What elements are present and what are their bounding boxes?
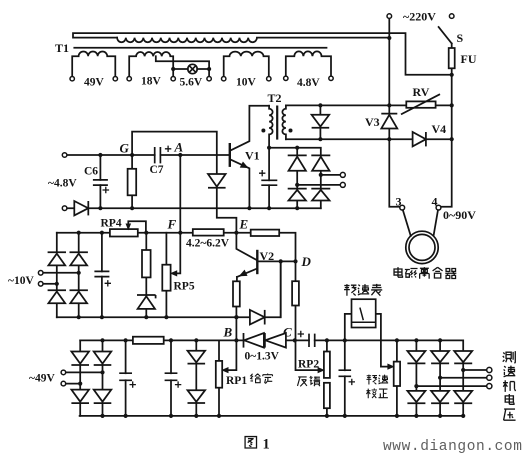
zener diode [137,295,156,309]
junction dot cap2 bottom [169,414,173,418]
wire tach bridge column 1 [415,340,417,416]
svg-text:S: S [457,31,464,45]
terminal tach output 1 [487,367,492,372]
svg-text:49V: 49V [84,77,105,89]
series capacitor after C [309,334,315,347]
svg-text:5.6V: 5.6V [180,77,203,89]
junction dot emitter-res/diode rail [234,315,238,319]
wire 220V left terminal down to primary line [388,18,390,113]
terminal ~49V upper [61,370,66,375]
wire tach bridge column 3 [462,363,464,416]
indicator lamp 5.6V [188,64,197,73]
terminal 49V left [70,77,74,81]
tach diode top col2 [431,351,449,363]
wire V2 base lead [236,233,257,261]
wire 10V input bottom [43,283,57,285]
svg-text:RP2: RP2 [298,359,319,371]
node E dot [234,231,238,235]
junction dot diode col top [194,338,198,342]
feedback diode on 10V bottom rail [250,310,265,325]
svg-text:C7: C7 [150,164,164,176]
junction dot feedback col [279,259,283,263]
label 转速校正 (speed correction) [366,375,377,385]
capacitor C6 [93,180,108,185]
49V bridge diode bottom col1 [71,390,89,404]
junction dot 5.6V right [207,67,211,71]
svg-text:~10V: ~10V [8,275,34,287]
transformer T1 primary bar [73,33,452,75]
svg-text:RV: RV [413,85,430,99]
diode lower on 49V column [188,390,206,403]
resistor 4.2~6.2V [193,229,224,236]
terminal 4.8V left [284,76,288,80]
wire rectifier column 2 [320,171,322,208]
terminal 49V right [113,77,117,81]
potentiometer RP4 [110,229,138,236]
junction dot bridge col2 top [77,231,81,235]
junction dot emitter resistor rail [234,315,238,319]
junction dot bridge col3 bottom [461,414,465,418]
wire 49V bridge column 2 [102,340,104,416]
svg-text:RP1: RP1 [226,375,247,387]
wire feedback diode to collector column [280,261,282,317]
node G dot [130,153,134,157]
wire output line col2 [440,377,487,379]
wire A-line (input to V1 base) [65,154,230,156]
correction wiper arrow [388,364,394,369]
rectifier diode top col2 [311,155,330,170]
wire 18V winding centre tap to 5.6V right terminal [156,56,209,69]
wire rectifier column 1 [296,148,298,209]
svg-text:V1: V1 [245,149,260,163]
tachometer meter body [352,299,376,327]
wire divider chain column [145,233,147,318]
junction dot RV right [450,103,454,107]
rectifier diode bottom col2 [311,189,330,201]
49V bridge diode bottom col2 [94,390,112,404]
svg-text:4: 4 [432,195,438,209]
diode V4 [413,132,426,146]
junction dot bridge col2 bottom [77,315,81,319]
resistor on B rail [133,337,164,344]
terminal 4.8V right [329,76,333,80]
junction dot bridge col2 top [438,338,442,342]
junction dot cap rail [267,206,271,210]
label 测速机电压 (tachogenerator voltage) [503,351,516,363]
terminal tach output 3 [487,384,492,389]
svg-text:T1: T1 [55,41,69,55]
transformer T1 primary winding scallops [117,38,389,43]
wire rectifier tap to terminal lower [297,184,340,186]
svg-text:3: 3 [396,195,402,209]
wire RP2 column [326,340,328,416]
wire RP5 column [165,233,167,318]
junction dot C6 top [98,153,102,157]
emitter arrow V2 [240,270,247,275]
terminal ~4.8V lower [62,206,67,211]
potentiometer RP2 body lower [324,383,330,408]
junction dot tap col2 [319,173,323,177]
junction dot C6 bottom [98,206,102,210]
T1 secondary winding 4.8V [286,51,331,76]
junction dot cap1 bottom [124,414,128,418]
wire RP1 column [218,340,220,416]
T2 primary winding [269,106,273,148]
transistor V1 base bar [229,144,231,166]
fuse FU [449,48,455,68]
wire C6 column [99,155,101,208]
node F dot [178,231,182,235]
wire rectifier tap to terminal upper [321,174,340,176]
junction dot electrolytic top [343,338,347,342]
T2 secondary winding [282,105,286,139]
wire tach bridge column 2 [439,340,441,416]
terminal ~220V left [387,14,392,19]
T1 secondary winding 10V [224,52,269,77]
junction dot G resistor bottom [130,206,134,210]
svg-text:4.2~6.2V: 4.2~6.2V [186,238,230,250]
T2 polarity dot left [261,129,265,133]
diode B-C 1 [244,333,264,348]
tach diode top col1 [407,351,425,363]
node D dot [293,259,297,263]
potentiometer RP1 [216,361,222,388]
junction dot electrolytic bottom [343,414,347,418]
junction dot RP1 bottom [217,414,221,418]
wire 10V input top [43,272,79,274]
svg-text:A: A [174,140,184,155]
clamp diode below bypass loop [208,174,226,188]
junction dot RP5 bottom [164,315,168,319]
wire main bottom rail [80,415,464,417]
10V bridge diode bottom col2 [70,290,88,303]
resistor V2 emitter [233,281,240,306]
wire correction resistor column [396,340,398,416]
wire V2 collector line to D [257,260,295,262]
49V bridge diode top col1 [71,352,89,366]
emitter capacitor of V1 [261,180,277,185]
tach diode bottom col1 [407,391,425,403]
T2 core [276,107,278,139]
junction dot V4 right [450,137,454,141]
wire filter cap 2 column [170,340,172,416]
terminal ~10V lower [38,282,43,287]
terminal ~49V lower [61,381,66,386]
junction dot tap col2 [77,271,81,275]
wire 49V input top [66,371,103,373]
junction dot snubber top [318,103,322,107]
diode upper on 49V column [188,351,206,364]
junction dot V4 left [387,137,391,141]
svg-text:0~1.3V: 0~1.3V [245,351,280,363]
resistor D column [292,281,299,305]
T2 polarity dot right [289,129,293,133]
junction dot 49V col2 bottom [100,414,104,418]
electromagnetic clutch coil [406,231,438,263]
junction dot snubber bottom [318,137,322,141]
wire diode column 49V [195,340,197,416]
junction dot 49V col2 top [100,338,104,342]
terminal 5.6V right [207,77,211,81]
tach diode top col3 [454,351,472,363]
10V bridge diode top col1 [48,252,66,265]
junction dot T2 bottom [267,146,271,150]
terminal tach output 2 [487,375,492,380]
junction dot tap col1 [55,282,59,286]
svg-text:T2: T2 [268,91,282,105]
junction dot cap bottom [100,315,104,319]
node C dot [293,338,297,342]
junction dot RP2 top [325,338,329,342]
10V bridge diode top col2 [70,252,88,265]
terminal ~4.8V upper [62,153,67,158]
wire RP4 wiper loop [128,221,146,232]
svg-text:RP5: RP5 [174,281,195,293]
wire V3 cathode down to terminal 3 [389,129,400,207]
T1 secondary winding 18V with 5.6V tap [129,52,173,76]
junction dot diode col bottom [194,414,198,418]
tach diode bottom col2 [431,391,449,403]
wire lamp line left [173,68,188,70]
RP2 wiper arrow [318,368,324,373]
wire upper bottom rail [65,207,321,209]
svg-text:G: G [120,141,130,156]
junction dot zener bottom [144,315,148,319]
junction dot output col3 [461,368,465,372]
resistor E to corner [251,230,280,236]
wire V4 line (T2 bottom to fuse column) [286,138,452,140]
10V bridge diode bottom col1 [48,290,66,303]
wire lamp line right [197,68,209,70]
terminal 10V right [267,77,271,81]
junction dot fuse bottom [450,73,454,77]
diode B-C 2 [265,333,286,348]
junction dot bridge col1 rail [295,206,299,210]
label 给定 (setpoint) [250,374,260,383]
resistor divider upper [142,250,151,277]
terminal T2 output lower [340,182,345,187]
svg-text:0~90V: 0~90V [443,208,476,222]
wire V2 emitter resistor bottom to rail [235,307,237,318]
label 反馈 (feedback) [297,377,306,386]
svg-text:10V: 10V [236,77,257,89]
wire 10V bottom rail with corner up to V2 collector line [57,261,281,317]
wire filter cap 1 column [125,340,127,416]
svg-text:~4.8V: ~4.8V [48,178,77,190]
terminal 4 [436,205,441,210]
svg-text:18V: 18V [141,76,162,88]
junction dot output col2 [438,376,442,380]
wire output line col1 [416,385,486,387]
svg-text:www.diangon.com: www.diangon.com [383,439,523,455]
svg-text:C6: C6 [84,166,98,178]
filter capacitor 2 [165,373,178,380]
wire A node down to F node and RP5 wiper [176,155,180,273]
correction rheostat body [394,362,400,386]
wire 10V bridge column 2 [78,233,80,318]
potentiometer RP2 body upper [324,352,330,378]
wire clutch lead right [433,210,438,237]
wire electrolytic column [344,340,346,416]
node A dot [178,153,182,157]
wire B node column [235,317,237,340]
wire switch to fuse, fuse to terminal 4 column [441,44,452,207]
svg-text:1: 1 [263,437,270,453]
label 转速表 (tachometer) [344,284,356,296]
wire T2 rectifier top rail [269,148,321,156]
junction dot correction bottom [395,414,399,418]
junction dot 49V tap col2 [100,370,104,374]
emitter arrow V1 [240,162,247,167]
transistor V1 collector lead [230,106,269,151]
junction dot bridge col1 top [414,338,418,342]
junction dot bridge col1 top [295,146,299,150]
snubber diode on T2 secondary [312,115,330,128]
terminal 10V left [222,77,226,81]
wire meter right bracket down to correction wiper [376,314,389,367]
svg-text:RP4: RP4 [101,218,122,230]
junction dot RP2 bottom [325,414,329,418]
junction dot RP4 wiper [144,231,148,235]
wire 49V input bottom [66,383,81,385]
49V bridge diode top col2 [94,352,112,366]
junction dot primary/220V [387,36,391,40]
potentiometer RP5 [162,265,170,291]
varistor RV [406,101,435,107]
junction dot V1 emitter rail [247,206,251,210]
svg-text:V3: V3 [365,115,380,129]
terminal ~10V upper [38,271,43,276]
wire B-C top rail (y=340.4) with corner into tach bridge col3 [80,340,463,351]
junction dot bridge col1 bottom [414,414,418,418]
svg-text:V2: V2 [260,249,275,263]
wire 5.6V terminal stubs [173,69,209,76]
wire snubber diode column [319,105,321,139]
terminal T2 output upper [340,172,345,177]
wire G bias resistor column [131,155,133,208]
terminal 18V left [127,77,131,81]
transistor V2 emitter lead [237,269,257,282]
terminal ~220V right [449,14,454,19]
terminal 18V right [171,77,175,81]
label 电磁离合器 [394,267,402,277]
wire emitter capacitor column [268,148,270,209]
junction dot correction top [395,338,399,342]
junction dot output col1 [414,384,418,388]
wire G bypass loop and clamp diode chain to E [132,132,236,233]
filter capacitor 1 [119,373,132,380]
wire smoothing cap column [101,233,103,318]
wire output line col3 [463,369,487,371]
rectifier diode bottom col1 [288,189,307,201]
svg-text:E: E [239,217,249,232]
svg-text:~220V: ~220V [403,10,436,24]
T1 secondary winding 49V [72,51,115,76]
caption 图 1 [245,437,256,448]
thyristor V3 [381,114,397,129]
junction dot 49V tap col1 [78,382,82,386]
wire meter left bracket [345,314,352,341]
transistor V2 base bar [256,251,258,273]
svg-text:FU: FU [461,52,477,66]
junction dot RV left [387,103,391,107]
tach diode bottom col3 [454,391,472,403]
smoothing capacitor 10V [94,271,109,276]
svg-text:V4: V4 [432,122,447,136]
transformer T1 core line [74,47,326,49]
wire RV line (T2 top to fuse column) [286,104,452,106]
wire 49V bridge column 1 [79,340,81,416]
terminal 3 [400,205,405,210]
junction dot cap2 top [169,338,173,342]
capacitor C7 [156,149,160,161]
svg-text:F: F [167,217,177,232]
junction dot 5.6V left [171,67,175,71]
junction dot bridge col2 bottom [438,414,442,418]
transistor V1 emitter lead [230,159,249,208]
rectifier diode top col1 [288,155,307,170]
wire E rail (rail1) with corner down to D [57,233,296,262]
resistor G-bias [128,169,137,196]
svg-text:B: B [223,325,233,340]
junction dot tap col1 [295,183,299,187]
wire RP1 wiper to B [229,340,237,370]
junction dot cap1 top [124,338,128,342]
switch S blade [439,27,452,44]
svg-text:D: D [301,254,312,269]
node B dot [234,338,238,342]
electrolytic capacitor [339,370,352,376]
diode at ~4.8V input [74,201,88,215]
wire 10V bridge column 1 [56,233,58,318]
svg-text:~49V: ~49V [29,373,55,385]
wire D resistor column and C node column [296,261,319,370]
wire clutch lead left [403,210,411,237]
svg-text:4.8V: 4.8V [297,77,320,89]
junction dot cap top [100,231,104,235]
